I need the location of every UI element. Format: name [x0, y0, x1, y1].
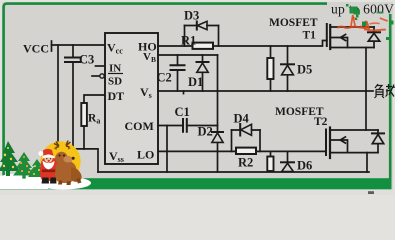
- wire R1 to T1 gate: [213, 41, 327, 47]
- tree middle: [13, 152, 35, 179]
- wire DT pin to Ra: [84, 95, 105, 103]
- green frame border: [4, 4, 391, 180]
- wire HO pin to R1: [158, 45, 193, 47]
- wire vertical branch left of C3: [57, 45, 59, 149]
- wire Ra to bottom link: [83, 126, 85, 149]
- svg-text:LO: LO: [137, 148, 154, 162]
- resistor Ra: [81, 103, 87, 126]
- wire R2 to T2 gate: [256, 150, 326, 152]
- svg-text:D2: D2: [198, 125, 213, 139]
- diode D6: [281, 151, 294, 171]
- tree small right: [28, 159, 46, 177]
- Christmas sticker decoration: [0, 141, 91, 190]
- wire COM pin to C1: [158, 125, 183, 127]
- green bottom bar: [0, 178, 392, 189]
- svg-text:VCC: VCC: [23, 42, 49, 56]
- svg-text:up to 600V: up to 600V: [331, 2, 394, 17]
- diode body-diode of T1: [368, 27, 380, 48]
- svg-text:C3: C3: [79, 53, 94, 67]
- wire C1 to vertical net: [187, 125, 218, 127]
- wire VB node vertical down to LO net: [217, 55, 219, 172]
- Santa figure: [38, 149, 58, 184]
- wire load stub: [366, 90, 373, 92]
- pin label separator: [108, 73, 123, 75]
- snow ground: [0, 173, 48, 189]
- diode D3 bypass loop: [185, 21, 219, 46]
- svg-text:MOSFET: MOSFET: [269, 17, 318, 29]
- svg-text:T1: T1: [303, 30, 317, 42]
- svg-text:D3: D3: [184, 9, 199, 23]
- reindeer figure: [54, 141, 82, 186]
- resistor gate-pulldown T2 (unlabelled): [270, 151, 272, 156]
- wire VCC to IC Vcc pin: [52, 44, 106, 46]
- op-amp U1 driver IC box: [105, 33, 158, 164]
- diode D5: [281, 46, 294, 91]
- pin IN stub: [96, 65, 106, 67]
- svg-text:DT: DT: [108, 89, 125, 103]
- svg-text:D4: D4: [234, 112, 250, 126]
- svg-text:IN: IN: [109, 63, 121, 75]
- svg-text:D6: D6: [297, 159, 312, 173]
- svg-text:D5: D5: [297, 63, 312, 77]
- wire bottom-left link to ground rail: [58, 149, 98, 172]
- wire red annotation scribble: [338, 15, 387, 30]
- wire LO pin to R2: [158, 150, 236, 152]
- node label 负载 (load), hand-drawn glyphs: [375, 84, 395, 98]
- node VCC terminal tick: [51, 41, 53, 51]
- diode D1: [197, 55, 209, 91]
- capacitor C1: [183, 119, 187, 132]
- wire VB pin: [158, 54, 218, 56]
- resistor R2: [236, 148, 256, 154]
- diode body-diode of T2: [372, 130, 384, 153]
- mark below bar bottom-right: [368, 191, 374, 194]
- wire COM ground branch: [166, 126, 168, 173]
- yellow sun disc: [40, 141, 80, 181]
- svg-text:SD: SD: [108, 76, 122, 88]
- resistor R1: [193, 43, 214, 49]
- svg-text:R1: R1: [181, 34, 196, 48]
- wire Vs pin to switch node: [158, 90, 366, 92]
- svg-text:C1: C1: [175, 105, 190, 119]
- wire switch node vertical: [365, 48, 367, 131]
- tree big left: [0, 141, 20, 176]
- svg-text:T2: T2: [314, 116, 328, 128]
- svg-text:D1: D1: [188, 75, 203, 89]
- resistor gate-pulldown T1 (unlabelled): [270, 46, 272, 58]
- diode D2: [212, 132, 223, 142]
- wire T2 source to ground rail: [366, 153, 368, 172]
- svg-text:COM: COM: [125, 119, 154, 133]
- node tick on Vs wire: [183, 91, 185, 94]
- pin SD stub with inverter bubble: [92, 75, 100, 77]
- wire ground rail: [98, 171, 369, 173]
- svg-text:C2: C2: [157, 71, 172, 85]
- diode D4 bypass loop: [232, 124, 261, 151]
- decorative green scan marks: [346, 4, 394, 40]
- capacitor C3: [65, 45, 80, 149]
- svg-text:R2: R2: [238, 156, 253, 170]
- transistor T1 MOSFET symbol: [327, 24, 374, 49]
- capacitor C2: [171, 55, 185, 91]
- transistor T2 MOSFET symbol: [326, 128, 378, 159]
